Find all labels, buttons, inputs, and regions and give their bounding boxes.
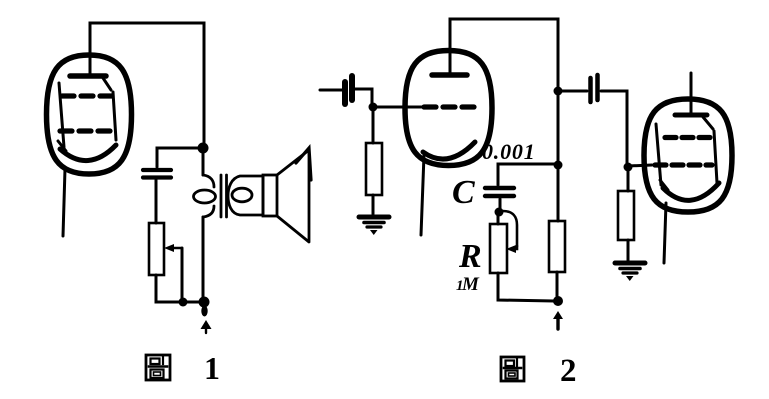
resistor R4 (plate load) — [549, 221, 565, 272]
vacuum tube V1 grid (lower dashed row) — [60, 128, 111, 133]
resistor R5 (V3 grid leak) — [618, 191, 634, 240]
wire C3 to V3 grid node — [601, 91, 627, 164]
node bottom-left junction — [179, 298, 188, 307]
wiper arrow of R3 — [503, 211, 517, 253]
wire C1 to resistor R1 — [155, 180, 158, 223]
capacitor C4 — [485, 188, 514, 196]
node feedback junction — [554, 161, 563, 170]
wire grid node to V2 grid — [373, 106, 427, 109]
wire R5 to ground — [627, 240, 630, 261]
wire V1 plate to top rail — [90, 23, 204, 146]
wire feedback junction down to plate load R4 — [557, 168, 560, 221]
wire junction to capacitor C4 — [498, 164, 555, 185]
svg-text:R: R — [458, 238, 482, 275]
vacuum tube V1 envelope — [47, 55, 132, 174]
transformer T1 secondary coil — [232, 188, 252, 202]
node bottom B+ junction — [199, 297, 210, 308]
node under C4 — [495, 208, 504, 217]
speaker LS1 horn — [277, 150, 309, 242]
vacuum tube V3 envelope — [644, 99, 732, 212]
vacuum tube V1 side electrodes — [58, 83, 116, 151]
caption 圖 (figure 2) — [501, 357, 524, 381]
wire C4 to node — [499, 199, 502, 208]
vacuum tube V3 grid (lower dashed row) — [655, 162, 712, 167]
capacitor C3 (coupling to V3) — [591, 75, 598, 102]
vacuum tube V3 grid (upper dashed row) — [665, 135, 712, 140]
vacuum tube V3 plate — [675, 115, 713, 129]
wire V1 cathode lead — [63, 169, 65, 236]
node plate rail junction — [554, 87, 563, 96]
resistor R2 (grid leak) — [366, 143, 382, 195]
wire V3 cathode lead — [664, 203, 666, 263]
svg-text:0.001: 0.001 — [482, 139, 536, 164]
wire junction down to transformer primary — [202, 148, 205, 175]
wire V2 cathode lead — [421, 155, 424, 235]
battery B+ arrow (figure 2) — [553, 311, 563, 329]
wire grid node down to R2 — [372, 109, 375, 143]
svg-text:M: M — [461, 274, 480, 295]
wire R3 bottom to B+ junction — [498, 273, 554, 301]
caption numeral 1 (figure 1) — [204, 350, 220, 386]
wire R2 to ground — [372, 195, 375, 214]
svg-text:1: 1 — [204, 350, 220, 386]
svg-text:2: 2 — [560, 353, 577, 389]
vacuum tube V2 cathode — [423, 142, 475, 159]
ground (figure 2 output) — [615, 263, 645, 281]
capacitor C1 — [143, 170, 171, 178]
node bottom B+ junction (figure 2) — [553, 296, 563, 306]
vacuum tube V2 envelope — [405, 51, 492, 166]
resistor R3 (grid leak 1M) — [490, 214, 507, 273]
label 1M — [456, 274, 480, 295]
resistor R1 — [149, 223, 164, 275]
label C — [452, 174, 475, 211]
vacuum tube V1 grid (upper dashed row) — [62, 93, 112, 98]
wire transformer primary down to B+ junction — [202, 217, 205, 302]
vacuum tube V2 plate — [432, 72, 467, 78]
input terminal mark — [296, 148, 311, 180]
label 0.001 — [482, 139, 536, 164]
speaker LS1 driver — [228, 175, 277, 216]
wire plate rail down — [557, 93, 560, 161]
wire C2 to grid node — [354, 89, 372, 105]
wire R4 to B+ junction — [556, 272, 559, 298]
vacuum tube V1 cathode — [60, 145, 116, 161]
capacitor C2 (input coupling) — [345, 76, 352, 104]
ground (figure 2 input) — [359, 217, 389, 235]
node grid junction V2 — [369, 103, 378, 112]
node junction (plate rail / output branch) — [198, 143, 209, 154]
wire V2 plate to top rail and down to coupling node — [450, 19, 558, 88]
label R — [458, 238, 482, 275]
wire input lead — [320, 89, 342, 92]
vacuum tube V3 side electrodes — [656, 124, 717, 190]
transformer T1 core — [221, 175, 227, 217]
wire junction to capacitor C3 — [561, 90, 587, 93]
transformer T1 primary coil — [194, 175, 216, 217]
wire junction to capacitor C1 — [157, 148, 200, 167]
caption 圖 (figure 1) — [146, 355, 170, 380]
wire grid node to V3 grid — [628, 165, 652, 166]
wire bottom rail — [183, 301, 204, 304]
wire grid node down to R5 — [627, 170, 630, 191]
vacuum tube V1 plate — [70, 76, 111, 90]
vacuum tube V2 grid (dashed row) — [424, 104, 475, 109]
node V3 grid junction — [624, 163, 633, 172]
battery B+ arrow (figure 1) — [201, 306, 212, 334]
caption numeral 2 (figure 2) — [560, 353, 577, 389]
wire R1 bottom to ground rail — [156, 275, 182, 302]
wire V3 plate top lead — [690, 73, 693, 116]
vacuum tube V3 cathode — [663, 183, 719, 200]
svg-text:C: C — [452, 174, 475, 211]
wiper arrow of R1 — [164, 244, 182, 301]
